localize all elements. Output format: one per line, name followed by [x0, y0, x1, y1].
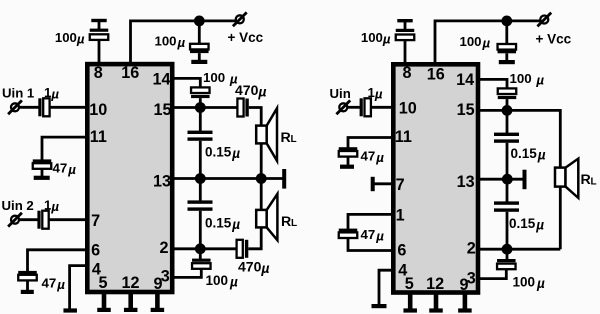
- node Vcc junction dot: [194, 16, 205, 27]
- svg-text:47µ: 47µ: [361, 227, 385, 244]
- svg-text:3: 3: [161, 268, 170, 286]
- terminal T-bar pin 13: [282, 169, 286, 189]
- svg-text:14: 14: [152, 71, 170, 89]
- capacitor C1 100u top terminal bar: [91, 19, 106, 22]
- wire LS3 to pin 2 line: [559, 187, 562, 250]
- wire bottom pin stub 9: [155, 292, 160, 309]
- ground bottom pin right 9: [458, 308, 472, 312]
- ground below C14: [499, 60, 515, 64]
- wire node D to C19: [506, 110, 509, 133]
- wire bottom pin stub 5: [102, 292, 107, 309]
- wire C5 to pin 7: [49, 218, 87, 221]
- node F junction dot: [502, 244, 513, 255]
- wire pin 2 line right: [478, 248, 560, 251]
- wire LS2 top to node B: [260, 179, 263, 210]
- speaker LS1: [256, 126, 267, 144]
- capacitor C11 470u plates: [237, 240, 243, 258]
- svg-text:8: 8: [94, 64, 103, 82]
- wire C8 to speaker LS1: [249, 108, 261, 127]
- svg-text:47µ: 47µ: [361, 148, 385, 165]
- svg-text:6: 6: [91, 241, 100, 259]
- svg-text:16: 16: [427, 66, 445, 84]
- svg-text:8: 8: [402, 64, 411, 82]
- capacitor C20 0.15u plates: [494, 201, 519, 204]
- svg-text:0.15µ: 0.15µ: [511, 146, 546, 163]
- terminal +Vcc: [236, 15, 244, 23]
- wire C21 to pin 3 right: [478, 269, 506, 278]
- wire C11 to speaker LS2: [248, 227, 261, 249]
- terminal input Uin2: [11, 216, 19, 224]
- ground bottom pin 9: [151, 308, 165, 312]
- wire pin 2 line: [173, 247, 238, 250]
- wire node A to C9: [199, 108, 202, 132]
- svg-text:0.15µ: 0.15µ: [205, 145, 240, 162]
- ground pin 4 right: [372, 304, 387, 308]
- svg-text:12: 12: [121, 274, 139, 292]
- wire bottom pin stub right 12: [434, 293, 439, 310]
- capacitor C12 100u plates: [192, 259, 211, 262]
- svg-text:L: L: [291, 218, 297, 229]
- capacitor C13 100u top terminal bar: [397, 19, 412, 22]
- wire pin 4 to ground: [70, 266, 87, 309]
- wire pin 13 line right: [478, 178, 524, 181]
- terminal input Uin1: [11, 103, 19, 111]
- wire pin 13 line: [173, 177, 285, 180]
- ground bottom pin right 12: [429, 308, 443, 312]
- svg-text:+ Vcc: + Vcc: [536, 32, 572, 47]
- svg-text:7: 7: [91, 212, 100, 230]
- capacitor C8 470u plates: [237, 99, 243, 117]
- wire pin 15 line: [173, 106, 238, 109]
- terminal +Vcc right: [540, 16, 548, 24]
- svg-text:Uin: Uin: [330, 86, 351, 101]
- svg-text:R: R: [281, 130, 291, 146]
- wire node E to C20: [506, 179, 509, 202]
- wire C12 to pin 3: [173, 269, 202, 278]
- svg-text:1µ: 1µ: [44, 85, 59, 102]
- node C junction dot: [195, 243, 206, 254]
- wire bottom pin stub 12: [128, 292, 133, 309]
- ground bottom pin right 5: [403, 308, 417, 312]
- wire C9 to node B: [199, 141, 202, 179]
- svg-text:100 µ: 100 µ: [510, 71, 545, 88]
- wire pin 14 to C18: [478, 79, 507, 88]
- svg-text:5: 5: [405, 275, 414, 293]
- wire C16 to ground: [347, 157, 350, 166]
- svg-text:13: 13: [457, 173, 475, 191]
- wire C4 to ground: [41, 169, 44, 177]
- ground bottom pin 5: [97, 308, 111, 312]
- svg-text:3: 3: [467, 270, 476, 288]
- wire C6 to ground: [26, 280, 29, 290]
- node D junction dot: [502, 105, 513, 116]
- svg-text:100µ: 100µ: [206, 273, 239, 290]
- terminal input Uin: [339, 103, 347, 111]
- svg-text:1: 1: [396, 207, 405, 225]
- node pin13 junction dot: [195, 173, 206, 184]
- svg-text:2: 2: [467, 240, 476, 258]
- wire C17 to pin 6: [348, 238, 393, 251]
- wire pin 16 riser: [131, 21, 237, 64]
- speaker LS3: [555, 168, 566, 187]
- svg-text:15: 15: [153, 101, 171, 119]
- node B junction dot: [256, 173, 267, 184]
- svg-text:47µ: 47µ: [42, 275, 66, 292]
- svg-text:1µ: 1µ: [368, 85, 383, 102]
- ground below C16: [340, 165, 354, 169]
- wire node C to C12: [199, 249, 202, 259]
- capacitor C19 0.15u plates: [494, 133, 519, 136]
- op-amp IC U2 body: [393, 64, 478, 292]
- svg-text:L: L: [291, 134, 297, 145]
- capacitor C21 100u plates: [497, 259, 516, 262]
- svg-text:0.15µ: 0.15µ: [205, 215, 240, 232]
- node A junction dot: [195, 102, 206, 113]
- wire C14 to ground: [505, 53, 508, 60]
- wire Uin2 to C5: [20, 218, 39, 221]
- svg-text:11: 11: [395, 128, 412, 146]
- wire pin 14 to C7: [173, 78, 201, 87]
- wire C3 to pin 10: [50, 106, 87, 109]
- wire node F to C21: [506, 249, 509, 259]
- wire junction to C2: [198, 21, 201, 45]
- ground bottom pin 12: [124, 308, 138, 312]
- svg-text:R: R: [581, 172, 591, 188]
- svg-text:Uin 1: Uin 1: [2, 85, 34, 100]
- node Vcc junction dot right: [501, 16, 512, 27]
- wire LS1 to node B: [260, 143, 263, 178]
- wire Uin1 to C3: [20, 106, 40, 109]
- svg-text:470µ: 470µ: [235, 82, 266, 100]
- svg-text:100µ: 100µ: [361, 30, 391, 47]
- terminal T-bar pin 13 right: [523, 170, 527, 190]
- wire C1 to pin 8 top: [98, 40, 101, 64]
- wire C15 to pin 10: [371, 106, 393, 109]
- capacitor C2 100u plates: [190, 50, 209, 53]
- wire C2 to ground: [198, 53, 201, 60]
- svg-text:100µ: 100µ: [460, 34, 491, 51]
- wire C19 to node E: [506, 143, 509, 179]
- speaker LS2: [256, 210, 267, 228]
- svg-text:100µ: 100µ: [55, 30, 85, 47]
- capacitor C18 100u plates: [498, 96, 517, 99]
- wire pin 6 to C6: [28, 250, 88, 272]
- wire pin 16 riser right: [435, 21, 541, 64]
- svg-text:470µ: 470µ: [238, 258, 269, 276]
- svg-text:R: R: [281, 214, 291, 230]
- terminal T-bar pin 7: [371, 177, 375, 191]
- capacitor C14 100u plates: [498, 50, 517, 53]
- svg-text:1µ: 1µ: [44, 197, 59, 214]
- wire C1 terminal to plate: [98, 20, 101, 30]
- wire C18 to node D: [506, 99, 509, 110]
- capacitor C10 0.15u plates: [188, 200, 213, 203]
- svg-text:L: L: [591, 176, 597, 187]
- capacitor C1 100u plates: [90, 29, 109, 32]
- wire pin 7 stub: [373, 182, 393, 185]
- ground below C4: [34, 176, 50, 180]
- wire C13 terminal to plate: [404, 20, 407, 30]
- wire C7 to node A: [199, 98, 202, 107]
- wire C13 to pin 8 top: [404, 40, 407, 64]
- capacitor C16 47u plates: [339, 147, 358, 150]
- svg-text:100µ: 100µ: [513, 275, 546, 292]
- capacitor C15 1u plates: [360, 98, 363, 116]
- capacitor C3 1u plates: [38, 98, 41, 116]
- svg-text:100µ: 100µ: [155, 33, 186, 50]
- wire Uin to C15: [348, 106, 360, 109]
- capacitor C7 100u plates: [191, 95, 210, 98]
- svg-text:16: 16: [121, 64, 139, 82]
- svg-text:100 µ: 100 µ: [203, 70, 238, 87]
- svg-text:11: 11: [90, 128, 107, 146]
- wire pin 11 to C4: [42, 137, 87, 160]
- capacitor C4 47u plates: [33, 159, 52, 162]
- ground pin 4: [63, 308, 76, 312]
- capacitor C9 0.15u plates: [188, 131, 213, 134]
- svg-text:6: 6: [397, 242, 406, 260]
- svg-text:47µ: 47µ: [53, 161, 77, 178]
- wire C10 to node C: [199, 211, 202, 249]
- svg-text:14: 14: [456, 71, 474, 89]
- wire junction to C14: [505, 21, 508, 45]
- wire bottom pin stub right 9: [463, 293, 468, 310]
- svg-text:12: 12: [426, 275, 444, 293]
- capacitor C5 1u plates: [37, 211, 40, 229]
- ground below C2: [191, 60, 207, 64]
- wire C20 to node F: [506, 212, 509, 249]
- wire bottom pin stub right 5: [408, 293, 413, 310]
- op-amp IC U1 body: [87, 64, 172, 292]
- svg-text:+ Vcc: + Vcc: [228, 30, 264, 45]
- svg-text:15: 15: [457, 101, 475, 119]
- svg-text:7: 7: [396, 176, 405, 194]
- wire pin 4 to ground right: [379, 270, 393, 305]
- svg-text:13: 13: [153, 172, 171, 190]
- svg-text:5: 5: [98, 274, 107, 292]
- wire pin 11 to C16: [348, 138, 393, 149]
- capacitor C6 47u plates: [18, 271, 37, 274]
- svg-text:0.15µ: 0.15µ: [509, 216, 544, 233]
- svg-text:10: 10: [89, 101, 107, 119]
- svg-text:Uin 2: Uin 2: [2, 198, 34, 213]
- ground below C6: [21, 290, 34, 294]
- wire pin 1 to loop: [348, 214, 393, 229]
- wire pin 15 line right: [478, 110, 560, 168]
- wire node B to C10: [199, 179, 202, 202]
- svg-text:2: 2: [159, 239, 168, 257]
- node E junction dot: [502, 174, 513, 185]
- svg-text:10: 10: [399, 100, 417, 118]
- capacitor C17 47u plates: [339, 229, 358, 232]
- capacitor C13 100u plates: [396, 29, 415, 32]
